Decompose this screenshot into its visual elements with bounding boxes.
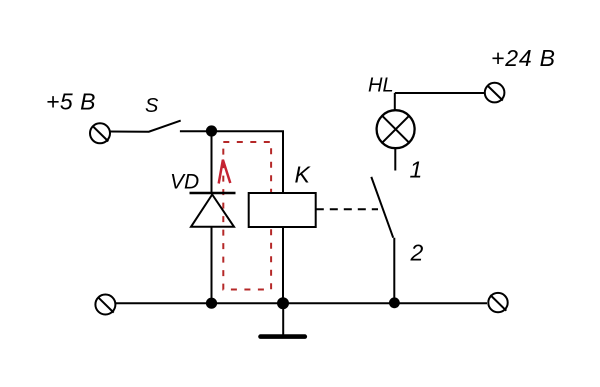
wire: node A down to diode (211, 131, 213, 193)
relay coil K (249, 193, 316, 227)
wire: contact blade to bottom rail (393, 238, 395, 304)
bottom rail wire (115, 302, 487, 304)
wire: corner to +24 V terminal (395, 92, 485, 94)
lamp HL (377, 110, 415, 148)
svg-text:HL: HL (368, 75, 394, 97)
mechanical link (dashed) (316, 208, 378, 210)
red arrow (current direction) (219, 160, 231, 184)
svg-text:+5 В: +5 В (46, 89, 96, 115)
svg-text:K: K (295, 162, 312, 188)
terminal X1 (+5 V) (90, 123, 110, 143)
diode VD (190, 193, 236, 227)
relay contact blade (371, 177, 393, 238)
wire: diode to bottom rail (211, 227, 213, 303)
svg-text:S: S (145, 95, 159, 117)
svg-text:+24 В: +24 В (491, 45, 556, 71)
wire: switch to relay branch (top rail) (180, 130, 284, 132)
terminal bottom right (488, 293, 507, 312)
svg-text:1: 1 (410, 157, 423, 183)
ground (261, 303, 305, 337)
wire: lamp up to corner (394, 93, 396, 111)
wire: top rail down to relay coil (282, 131, 284, 193)
wire: relay coil to bottom rail (282, 227, 284, 303)
junction node B (diode leg) (206, 298, 217, 309)
wire: lamp to contact 1 (394, 148, 396, 170)
junction node D (contact leg) (389, 297, 400, 308)
svg-text:2: 2 (410, 240, 424, 266)
switch S blade (148, 121, 181, 132)
red dashed current loop (223, 142, 271, 290)
svg-text:VD: VD (170, 171, 199, 194)
junction node C (ground) (277, 297, 289, 309)
junction node A (206, 125, 217, 136)
terminal +24 В (485, 83, 505, 103)
wire: terminal to switch S (110, 131, 148, 133)
terminal bottom left (95, 295, 115, 315)
